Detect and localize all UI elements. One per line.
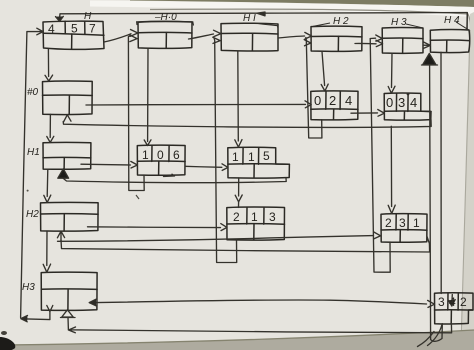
chevron into H1top left (b) (213, 37, 220, 43)
right paper edge line (461, 30, 470, 345)
arrowhead into (1,0,6) top (144, 140, 151, 146)
column header H0 box (138, 22, 192, 49)
chevron into (1,1,5) left (222, 164, 228, 171)
wire H2top down to node (0,2,4) (322, 51, 325, 85)
chevron into (0,3,4) left (378, 110, 385, 117)
arrowhead into H2row top (44, 195, 51, 202)
svg-text:H2: H2 (26, 209, 39, 220)
svg-text:H 3: H 3 (391, 17, 407, 28)
node (0,2,4) box (311, 91, 358, 120)
svg-text:6: 6 (173, 148, 180, 162)
wire row3 H3row to (3,4,2) (97, 300, 427, 304)
svg-text:1: 1 (142, 148, 149, 162)
wire row0 return from (0,3,4) to H0row (63, 120, 431, 128)
wire outer left loop (21, 32, 43, 318)
arrowhead into (2,1,3) top (235, 195, 242, 202)
arrowhead into (2,3,1) top (388, 205, 395, 213)
svg-text:1: 1 (248, 150, 255, 164)
svg-text:7: 7 (89, 22, 96, 36)
svg-text:5: 5 (71, 22, 78, 36)
svg-text:3: 3 (398, 95, 405, 110)
arrowhead left end of H3row downptr (21, 316, 28, 322)
node (2,1,3) box (227, 207, 285, 240)
right paper edge shade (461, 12, 474, 350)
row header H0 box (43, 81, 93, 115)
chevron into H3top left (a) (376, 40, 383, 46)
svg-text:3: 3 (269, 210, 276, 224)
wire (0,2,4) right to (0,3,4) (351, 112, 378, 114)
bottom-left dark blob (0, 337, 15, 350)
chevron into (3,4,2) left (428, 300, 435, 307)
svg-text:4: 4 (48, 22, 55, 36)
chevron into (2,3,1) left (374, 232, 381, 239)
wire top return H4 to head (60, 13, 468, 31)
wire H0top right to H1top (189, 34, 214, 39)
bottom-left small speck (1, 331, 7, 335)
wire col2 return (0,2,4) hook up to H2top (306, 38, 322, 139)
svg-text:1: 1 (251, 210, 258, 224)
wire head right to H0 top (104, 34, 131, 42)
open triangle under H3row (62, 310, 73, 317)
chevron into head left (37, 28, 43, 35)
chevron into H2top left (a) (305, 32, 312, 39)
wire H3row downptr down-left (22, 310, 50, 320)
column header H2 box (311, 26, 362, 51)
arrowhead into (0,3,4) top (388, 86, 395, 93)
row header H1 box (43, 142, 91, 169)
svg-text:5: 5 (263, 149, 270, 163)
chevron into H3top left (b) (376, 35, 382, 41)
wire row1: H1row right to (1,0,6) (81, 163, 131, 166)
filled triangle under H1row (58, 169, 69, 178)
svg-text:1: 1 (413, 216, 420, 230)
svg-text:2: 2 (385, 216, 392, 230)
bottom edge line (0, 330, 474, 345)
svg-text:2: 2 (460, 295, 467, 309)
arrowhead into H1row top (47, 136, 54, 142)
node (3,4,2) box (435, 293, 474, 324)
wire H4top down to node (3,4,2) (440, 52, 442, 293)
wire col0 return (1,0,6) hook up to H0top (128, 36, 144, 191)
wire H1row bottom to H2row (46, 169, 49, 196)
svg-text:2: 2 (233, 210, 240, 224)
wire row2: H2row right to (2,1,3) (88, 226, 221, 229)
node (2,3,1) box (381, 214, 427, 243)
overshoot tick under (1,0,6) (164, 174, 175, 176)
wire (1,0,6) right to (1,1,5) (185, 166, 222, 167)
chevron into H2top left (b) (304, 40, 311, 46)
arrowhead into (0,2,4) top (321, 84, 328, 91)
svg-text:H 4: H 4 (444, 15, 460, 26)
svg-text:4: 4 (449, 295, 456, 309)
small arrow on H3row down stroke (47, 306, 53, 312)
arrowhead into (3,4,2) cell 4 (451, 295, 454, 305)
chevron into (0,2,4) left (305, 101, 311, 108)
filled NULL triangle under H4top (423, 54, 436, 65)
wire row1 return from (1,1,5) to H1row triangle (63, 178, 286, 183)
svg-text:2: 2 (329, 93, 336, 108)
svg-text:H I: H I (243, 13, 256, 24)
column header H1 box (221, 23, 278, 51)
column header H3 box (382, 28, 423, 54)
wire head bottom to H0row (47, 49, 49, 77)
wire row0: H0row right to (0,2,4) (86, 103, 306, 106)
stray stroke below (3,4,2) (428, 325, 443, 346)
tiny speck left margin (27, 190, 29, 192)
chevron into (2,1,3) left (221, 224, 227, 231)
svg-text:H1: H1 (27, 147, 40, 158)
svg-text:4: 4 (410, 95, 417, 110)
top paper white strip (90, 1, 474, 18)
svg-text:0: 0 (386, 95, 393, 110)
svg-text:H3: H3 (22, 282, 35, 293)
junction dot on (0,3,4) top (407, 93, 410, 96)
head node box (4,5,7) (43, 21, 104, 49)
arrowhead into H3row right cell (pointing left) (89, 299, 96, 306)
wire H1top down to node (1,1,5) (237, 51, 240, 141)
chevron into (1,0,6) left (131, 161, 138, 168)
row header H2 box (41, 202, 99, 231)
chevron into H1top left (a) (214, 30, 221, 36)
arrowhead on row3 return pointing left (69, 327, 76, 333)
wire H2row-arrow long to (2,3,1) (58, 236, 374, 242)
chevron into H0top left (from head) (131, 30, 138, 37)
arrowhead into (1,1,5) top (235, 140, 242, 147)
svg-text:1: 1 (232, 150, 239, 164)
label bracket H3top (406, 24, 423, 28)
top paper edge line (150, 9, 471, 42)
row header H3 box (41, 272, 97, 310)
arrowhead down into head top (56, 16, 64, 21)
label bracket H0top (137, 21, 194, 25)
wire H2top right to H3top (355, 42, 376, 44)
arrowhead on top wire pointing left (257, 12, 265, 16)
chevron into H4top left (424, 42, 431, 48)
label bracket H1top (258, 24, 278, 29)
arrowhead into H0row top (45, 75, 53, 81)
speck near (1,0,6) (136, 195, 139, 199)
stray stroke below (3,4,2) b (418, 332, 435, 347)
wire H4top right up to top wire (466, 13, 468, 30)
node (1,0,6) box (137, 145, 185, 175)
svg-text:4: 4 (345, 93, 352, 108)
arrowhead up into H2row bottom (57, 231, 64, 238)
svg-text:H: H (84, 11, 92, 22)
svg-text:0: 0 (314, 93, 321, 108)
wire col1 return (2,1,3) hook up to H1top (214, 39, 237, 263)
node (1,1,5) box (228, 147, 290, 178)
arrowhead into H3row top (43, 264, 50, 272)
wire row3 return from (3,4,2) to H3row triangle (68, 318, 452, 333)
column header H4 box (430, 30, 469, 53)
chevron into H0top left (from col0 return) (130, 35, 138, 42)
wire H3top right to H4top (423, 44, 430, 46)
svg-text:#0: #0 (27, 87, 39, 98)
wire (1,1,5) down to (2,1,3) (238, 178, 240, 196)
svg-text:3: 3 (438, 295, 445, 309)
svg-text:3: 3 (399, 216, 406, 230)
wire H0top down to node (1,0,6) (147, 48, 149, 141)
node (0,3,4) box (384, 93, 431, 120)
arrowhead up into H0row bottom (64, 115, 71, 122)
wire H2row bottom to H3row (46, 231, 48, 266)
wire H0row bottom to H1row (49, 114, 51, 137)
svg-text:H 2: H 2 (333, 16, 349, 27)
wire (0,3,4) down to (2,3,1) (390, 126, 392, 206)
top dark band (130, 0, 474, 7)
wire row2 return from (2,3,1) to H2row (61, 237, 430, 253)
wire H1top right to H2top (278, 36, 305, 38)
label bracket H4top (456, 22, 469, 30)
wire col4 return (3,4,2) hook up to H4top triangle (430, 65, 443, 341)
wire col3 return (2,3,1) hook up to H3top (370, 38, 390, 272)
bottom paper edge shade (0, 330, 474, 350)
label bracket H2top (313, 23, 330, 26)
wire H3top down to node (0,3,4) (391, 53, 394, 87)
svg-text:0: 0 (157, 148, 164, 162)
